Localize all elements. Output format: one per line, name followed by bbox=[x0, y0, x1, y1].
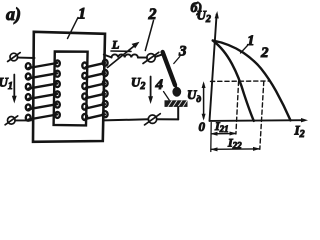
wire input top bbox=[18, 57, 35, 59]
svg-text:Uд: Uд bbox=[187, 87, 201, 105]
wire input bottom bbox=[15, 119, 31, 121]
curve 1 bbox=[213, 41, 254, 121]
leader for label 1 bbox=[68, 18, 79, 39]
electrode holder 3 bbox=[163, 52, 175, 85]
dimension I22 bbox=[210, 147, 260, 152]
secondary winding W2 bbox=[82, 60, 107, 120]
svg-text:U2: U2 bbox=[131, 75, 145, 93]
underline of L bbox=[111, 50, 131, 52]
transformer core outer bbox=[33, 32, 105, 142]
electrode tip bbox=[175, 82, 177, 90]
svg-text:1: 1 bbox=[247, 33, 255, 49]
adjustment arrow through L bbox=[108, 42, 140, 68]
x axis bbox=[210, 118, 309, 122]
dashed level Ud bbox=[211, 80, 270, 82]
y axis bbox=[210, 11, 219, 121]
wire inductor to terminal bbox=[138, 57, 147, 59]
terminal secondary top bbox=[143, 52, 159, 63]
dashed vertical at I21 bbox=[236, 81, 239, 134]
curve 2 bbox=[213, 41, 291, 121]
arrow U1 bbox=[12, 75, 17, 104]
extension line below origin bbox=[210, 123, 212, 152]
terminal input bottom bbox=[5, 116, 18, 125]
arc blob at electrode tip bbox=[172, 87, 181, 97]
svg-text:0: 0 bbox=[199, 119, 206, 134]
leader for label 2 bbox=[145, 21, 153, 51]
svg-text:I2: I2 bbox=[294, 123, 305, 141]
wire terminal to electrode holder bbox=[155, 54, 163, 57]
wire workpiece down bbox=[177, 107, 179, 119]
Ud double arrow bbox=[202, 81, 206, 120]
wire bottom to transformer bbox=[103, 119, 148, 120]
transformer core window bbox=[54, 52, 88, 126]
svg-text:U2: U2 bbox=[197, 8, 211, 26]
dimension I21 bbox=[210, 132, 237, 136]
label U1 bbox=[0, 75, 13, 93]
svg-text:4: 4 bbox=[155, 77, 164, 93]
svg-text:U1: U1 bbox=[0, 75, 13, 93]
inductor L humps bbox=[112, 54, 138, 57]
workpiece (hatched) bbox=[165, 100, 188, 107]
svg-text:2: 2 bbox=[260, 45, 269, 61]
wire secondary top to inductor bbox=[104, 55, 112, 58]
svg-text:2: 2 bbox=[148, 6, 157, 23]
arrow U2 bbox=[148, 77, 153, 105]
leader curve 1 bbox=[241, 46, 248, 54]
dashed vertical at I22 bbox=[260, 81, 264, 149]
leader for label 3 bbox=[174, 57, 180, 64]
leader for label 4 bbox=[164, 92, 170, 101]
primary winding W1 bbox=[26, 60, 60, 120]
svg-text:L: L bbox=[111, 38, 119, 52]
svg-text:а): а) bbox=[6, 4, 21, 25]
terminal input top bbox=[8, 53, 21, 62]
svg-text:1: 1 bbox=[78, 6, 86, 23]
wire bottom right of terminal bbox=[157, 118, 178, 120]
svg-text:I22: I22 bbox=[227, 136, 242, 151]
terminal secondary bottom bbox=[145, 114, 161, 125]
